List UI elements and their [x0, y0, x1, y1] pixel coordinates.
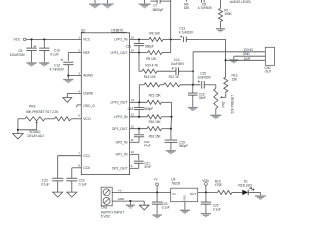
svg-text:OUT: OUT	[265, 70, 272, 74]
wire R8 to C13 node	[163, 38, 181, 40]
wire pin13 LPF2_IN	[130, 116, 147, 118]
resistor R13 15K	[224, 74, 238, 92]
resistor R16 10K	[147, 115, 173, 124]
wire pin15 node down to R10 row	[139, 53, 142, 72]
ground (below C16)	[188, 107, 198, 111]
svg-text:15K: 15K	[232, 78, 239, 82]
capacitor C12 4.7uF/63V	[50, 59, 74, 76]
svg-text:100K: 100K	[224, 12, 232, 16]
op-amp/delay IC U2 HT8970	[81, 29, 130, 175]
svg-text:12: 12	[131, 125, 135, 129]
capacitor C14 10uF/50V	[157, 58, 193, 75]
ground (below C12)	[63, 76, 73, 84]
label AUDIO LEVEL	[230, 0, 252, 4]
svg-text:GND: GND	[118, 197, 126, 201]
wire pin2 REF to C12	[68, 53, 81, 61]
svg-text:LPF1_IN: LPF1_IN	[114, 38, 128, 42]
ground (CN3 GND)	[126, 201, 135, 208]
capacitor C19 560pF	[165, 129, 188, 150]
svg-text:47nF: 47nF	[144, 143, 151, 147]
ground (below C25)	[201, 214, 211, 217]
wire pin10 OP1_IN	[130, 154, 139, 160]
wire pin4 DGND	[67, 93, 81, 97]
wire ECHO out	[193, 48, 265, 52]
svg-text:78L05: 78L05	[171, 181, 180, 185]
svg-text:33nF: 33nF	[199, 96, 206, 100]
svg-text:10: 10	[131, 150, 135, 154]
svg-text:0.1uF: 0.1uF	[41, 182, 49, 186]
resistor R19 470E	[215, 180, 232, 195]
resistor R8 10K	[149, 32, 163, 42]
wire C15 to PR2	[215, 85, 217, 89]
ground (top rail, right)	[139, 0, 151, 9]
wire U3 GND	[184, 202, 186, 210]
wire pin8 CC0	[72, 168, 82, 178]
ground (below PR2)	[210, 115, 221, 120]
svg-text:SUR: SUR	[244, 57, 251, 61]
svg-text:AGND: AGND	[83, 74, 93, 78]
capacitor C24 0.1uF	[152, 192, 170, 214]
wire pin14 LPF2_OUT	[130, 101, 147, 103]
svg-text:VCC: VCC	[14, 38, 22, 42]
wire pin6 VCO	[71, 118, 81, 120]
resistor R18 15K	[147, 127, 172, 139]
svg-text:470E: 470E	[215, 183, 222, 187]
svg-text:560pF: 560pF	[145, 44, 154, 48]
ground (CN3 GND open arrow)	[139, 201, 149, 210]
svg-text:0.1uF: 0.1uF	[213, 207, 221, 211]
svg-text:VCO: VCO	[83, 117, 91, 121]
svg-text:OP1_OUT: OP1_OUT	[112, 167, 129, 171]
svg-text:DELAY ADJ: DELAY ADJ	[27, 134, 44, 138]
capacitor C18 560pF	[128, 102, 154, 117]
svg-text:0.1uF: 0.1uF	[50, 52, 58, 56]
capacitor C13 4.7uF/63V	[179, 26, 194, 42]
svg-text:0.1uF: 0.1uF	[162, 206, 170, 210]
svg-text:560pF: 560pF	[179, 144, 188, 148]
connector CN2 OUT	[264, 47, 274, 73]
svg-text:14: 14	[131, 98, 135, 102]
svg-text:100uF/25V: 100uF/25V	[10, 53, 26, 57]
svg-text:LPF1_OUT: LPF1_OUT	[110, 51, 128, 55]
svg-text:OSC_O: OSC_O	[83, 104, 95, 108]
node +V terminal	[154, 178, 159, 193]
wire R17 to PR3	[45, 118, 55, 120]
wire VCC rail	[26, 38, 81, 40]
svg-text:15: 15	[131, 49, 135, 53]
svg-text:5 VDC: 5 VDC	[101, 214, 111, 218]
capacitor C20 47nF	[134, 129, 151, 148]
svg-text:OP2_IN: OP2_IN	[116, 141, 128, 145]
svg-text:11: 11	[131, 138, 134, 142]
capacitor C22 0.1uF	[41, 178, 63, 192]
svg-text:C18: C18	[128, 107, 134, 111]
ground (below C10)	[39, 62, 49, 66]
svg-text:OUT: OUT	[190, 192, 197, 196]
ground (top rail, mid)	[102, 0, 114, 9]
resistor R9 12K	[146, 51, 171, 62]
wire GND out	[234, 52, 265, 59]
svg-text:LPF2_OUT: LPF2_OUT	[110, 101, 128, 105]
svg-text:REF: REF	[83, 51, 90, 55]
ground (below R7)	[216, 29, 225, 32]
svg-text:VCC: VCC	[83, 38, 91, 42]
LED D1 RED	[238, 179, 254, 195]
resistor R17 2.2K	[55, 117, 72, 121]
svg-text:R16 10K: R16 10K	[149, 120, 162, 124]
svg-text:IN: IN	[172, 192, 175, 196]
svg-text:CN3: CN3	[101, 206, 108, 210]
svg-text:R14 12K: R14 12K	[144, 75, 157, 79]
ground (below C19)	[166, 150, 176, 154]
ground (below C24)	[152, 215, 162, 219]
capacitor C7 (cut at top)	[151, 0, 171, 12]
wire LED to ground	[248, 192, 260, 195]
svg-text:R18 15K: R18 15K	[149, 134, 162, 138]
svg-text:GND: GND	[183, 195, 187, 201]
wire U3 OUT to VDD	[198, 191, 218, 193]
label 22K PRESET (rotated)	[230, 95, 234, 114]
capacitor C25 0.1uF	[201, 192, 221, 213]
capacitor C21 47nF	[134, 161, 151, 169]
voltage regulator U3 78L05	[171, 178, 198, 202]
svg-text:AUDIO LEVEL: AUDIO LEVEL	[230, 0, 252, 4]
svg-text:PR3: PR3	[29, 105, 35, 109]
node AGND junction	[67, 75, 81, 77]
wire SUR out	[225, 57, 266, 61]
connector CN3 (screw terminals)	[101, 187, 112, 206]
capacitor C8 (cut at top)	[198, 0, 213, 10]
ground (below C9)	[26, 62, 36, 66]
wire +V from CN3	[112, 188, 171, 193]
svg-text:10uF/50V: 10uF/50V	[197, 75, 211, 79]
svg-text:22K PRESET: 22K PRESET	[230, 95, 234, 114]
svg-text:4.7uF/63V: 4.7uF/63V	[50, 68, 65, 72]
resistor R10 4.7K	[142, 64, 159, 74]
svg-text:R8 10K: R8 10K	[149, 32, 160, 36]
capacitor C10 0.1uF	[39, 39, 60, 62]
resistor R6 (cut at top)	[184, 0, 191, 10]
label CN3 SUPPLY INPUT 5 VDC	[101, 206, 124, 219]
wire pin9 OP1_OUT	[130, 167, 139, 169]
wire R16 node down	[170, 117, 173, 129]
svg-text:CC1: CC1	[83, 154, 90, 158]
resistor R12 1K	[160, 75, 180, 87]
svg-text:RED LED: RED LED	[238, 183, 252, 187]
svg-text:5600pF: 5600pF	[153, 8, 164, 12]
wire PR3 left end	[18, 119, 25, 130]
svg-text:13: 13	[131, 113, 135, 117]
pin numbers U2	[78, 35, 134, 168]
label 50K PRESET R17 2.2K	[26, 110, 59, 114]
svg-text:LPF2_IN: LPF2_IN	[114, 115, 128, 119]
capacitor C23 0.1uF	[66, 178, 86, 192]
label PR3	[29, 105, 35, 109]
ground (below C22, open arrow)	[53, 192, 63, 197]
ground (top rail, left)	[89, 0, 101, 9]
ground (below U3)	[180, 210, 190, 214]
svg-text:GND: GND	[243, 52, 251, 56]
svg-text:10uF/50V: 10uF/50V	[171, 62, 185, 66]
svg-text:50K PRESET R17 2.2K: 50K PRESET R17 2.2K	[26, 110, 59, 114]
label PR2 (rotated)	[222, 101, 226, 107]
wiper PR2	[220, 92, 226, 98]
ground (CN2 GND)	[229, 59, 238, 63]
svg-text:4.7uF/63V: 4.7uF/63V	[179, 30, 194, 34]
svg-text:CC0: CC0	[83, 166, 90, 170]
capacitor C15 10uF/50V	[197, 72, 215, 89]
ground (below C23, open arrow)	[67, 192, 77, 197]
svg-text:4.7uF/63V: 4.7uF/63V	[198, 6, 213, 10]
ground DGND (open arrow)	[63, 98, 72, 103]
wire C13 to SUR branch	[186, 39, 225, 77]
wire pin7 CC1	[58, 156, 82, 179]
preset PR3 50K	[25, 117, 45, 121]
svg-text:15K: 15K	[184, 6, 191, 10]
node VDD terminal	[202, 179, 209, 192]
svg-text:DGND: DGND	[83, 92, 93, 96]
svg-text:OP1_IN: OP1_IN	[116, 153, 128, 157]
capacitor C16 33nF	[188, 85, 206, 107]
wire echo vertical	[192, 52, 194, 85]
svg-text:VDD: VDD	[202, 179, 209, 183]
wire pin12 OP2_OUT	[130, 128, 147, 130]
svg-text:OP2_OUT: OP2_OUT	[112, 127, 129, 131]
wire R19 to LED	[232, 191, 242, 193]
preset PR2 22K	[214, 88, 218, 114]
label SOUND DELAY ADJ	[27, 130, 44, 138]
wire R15 down to R16 node	[171, 102, 173, 117]
resistor R14 12K	[144, 75, 160, 87]
wiper PR3	[18, 121, 38, 130]
svg-text:0.1uF: 0.1uF	[79, 182, 87, 186]
node PR3 ground junction	[17, 129, 19, 131]
wire R14 row left riser	[139, 85, 144, 103]
svg-text:R10 4.7K: R10 4.7K	[145, 64, 159, 68]
svg-text:R15 15K: R15 15K	[149, 93, 162, 97]
svg-text:PR2: PR2	[222, 101, 226, 107]
wire pin16 LPF1_IN	[130, 38, 149, 40]
ground (below LED)	[255, 196, 266, 201]
resistor R7 100K	[218, 0, 232, 28]
svg-text:560pF: 560pF	[144, 107, 153, 111]
svg-text:47nF: 47nF	[144, 165, 151, 169]
ground (below PR3, open arrow)	[13, 130, 24, 139]
wire pin15 LPF1_OUT	[130, 52, 148, 54]
svg-text:16: 16	[131, 35, 135, 39]
wire top vertical to R8 node	[170, 0, 172, 53]
node C15/C16 junction	[180, 84, 201, 86]
svg-text:R9 12K: R9 12K	[146, 57, 157, 61]
capacitor C11 560pF	[126, 39, 154, 52]
node VCC terminal	[14, 38, 27, 42]
wire pin11 OP2_IN	[130, 141, 139, 143]
svg-text:C11: C11	[126, 44, 132, 48]
resistor R15 15K	[147, 93, 172, 104]
svg-text:R12 1K: R12 1K	[169, 75, 180, 79]
capacitor C9 100uF/25V	[10, 39, 37, 62]
wire GND from CN3	[112, 197, 144, 202]
no-connect pin5 OSC_O	[77, 105, 82, 108]
